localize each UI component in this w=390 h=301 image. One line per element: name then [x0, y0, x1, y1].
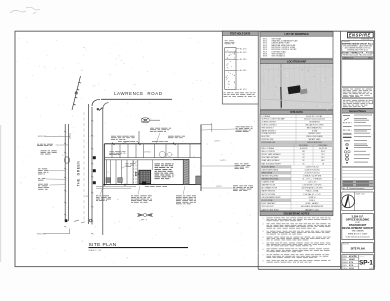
test hole log column — [225, 48, 236, 90]
svg-text:SCWA: SCWA — [312, 129, 318, 132]
north arrow box — [342, 192, 374, 211]
svg-text:SITE PLAN: SITE PLAN — [89, 242, 117, 248]
south label 3 — [176, 196, 196, 205]
svg-text:LOADING ZONE: LOADING ZONE — [262, 181, 276, 184]
intersection curb return curve — [92, 99, 100, 106]
svg-text:PROPOSED USE: PROPOSED USE — [262, 142, 276, 144]
svg-text:REV: 0: REV: 0 — [368, 57, 372, 59]
svg-text:1,200 GAL S.T. + 2 L.P.: 1,200 GAL S.T. + 2 L.P. — [303, 193, 321, 196]
drive aisle east edge — [173, 158, 183, 160]
bearing north — [118, 140, 138, 143]
svg-text:JANUARY 6, 2021: JANUARY 6, 2021 — [305, 208, 319, 211]
east label 2 — [235, 164, 251, 170]
west label curb — [37, 144, 53, 146]
svg-text:ENGINEERING NOTES: ENGINEERING NOTES — [284, 213, 310, 216]
svg-text:MAX. BUILDING HEIGHT: MAX. BUILDING HEIGHT — [262, 162, 281, 165]
hydrant dot at driveway — [97, 108, 99, 110]
svg-text:WILLIAM FLOYD UFSD: WILLIAM FLOYD UFSD — [305, 124, 324, 127]
svg-text:40,095 S.F. / 0.92 AC.: 40,095 S.F. / 0.92 AC. — [306, 115, 323, 118]
svg-text:300 GPD/ACRE = 276 GPD: 300 GPD/ACRE = 276 GPD — [302, 187, 324, 190]
svg-text:ZONING DISTRICT: ZONING DISTRICT — [262, 122, 277, 124]
east curb tick marks — [91, 120, 93, 234]
south label 2 — [131, 196, 152, 203]
driveway edge line — [138, 131, 140, 144]
svg-text:SP-9: SP-9 — [263, 56, 267, 58]
svg-text:FIRE DISTRICT: FIRE DISTRICT — [262, 127, 274, 129]
label above boundary 2 — [150, 128, 171, 132]
svg-text:PSEG LONG ISLAND: PSEG LONG ISLAND — [306, 135, 323, 138]
svg-text:ALLOWABLE FLOW: ALLOWABLE FLOW — [262, 187, 278, 190]
legend box — [342, 113, 374, 167]
svg-text:ENSPIRE: ENSPIRE — [349, 33, 371, 38]
svg-text:EL. 45.5': EL. 45.5' — [240, 52, 247, 54]
corner dots — [103, 184, 105, 186]
svg-text:LOT 5: LOT 5 — [217, 186, 222, 188]
parcel north boundary — [104, 143, 201, 145]
svg-text:LOT 5: LOT 5 — [215, 141, 220, 143]
the green west road edge (double line) — [64, 124, 66, 221]
svg-text:SUFFOLK COUNTY TAX MAP: SUFFOLK COUNTY TAX MAP — [262, 118, 286, 121]
revision cloud on west curb — [64, 157, 69, 163]
svg-text:DATE OF TEST HOLE: DATE OF TEST HOLE — [262, 208, 280, 211]
svg-text:PARKING REQUIRED: PARKING REQUIRED — [262, 175, 280, 178]
septic circle — [159, 151, 165, 157]
svg-text:J BUSINESS 2: J BUSINESS 2 — [309, 122, 320, 124]
the green east road edges — [88, 104, 90, 224]
svg-text:LOT 5: LOT 5 — [221, 160, 226, 162]
general notes bar — [342, 109, 374, 113]
svg-text:EL. 40.5': EL. 40.5' — [240, 70, 247, 72]
svg-text:PAVED AREA: PAVED AREA — [262, 171, 273, 174]
west label 3 — [38, 178, 45, 180]
bearing south — [145, 185, 167, 188]
project title box — [342, 214, 374, 240]
curb label nw — [110, 151, 126, 155]
west label 4 — [38, 184, 49, 190]
interior drive edge — [137, 160, 139, 185]
column dividers — [257, 31, 259, 269]
title block bottom — [342, 255, 374, 270]
svg-text:WATER DISTRICT: WATER DISTRICT — [262, 129, 276, 132]
svg-text:PROVIDED: PROVIDED — [319, 145, 329, 147]
sheet title box — [342, 243, 374, 253]
list of drawings box — [260, 32, 333, 59]
dumpster pad hatched squares — [106, 178, 110, 183]
fence lines below south boundary — [96, 186, 136, 188]
pencil smudge — [10, 7, 40, 14]
svg-text:OFFICE BUILDING: OFFICE BUILDING — [307, 142, 322, 144]
svg-text:NONE - VACANT: NONE - VACANT — [305, 202, 318, 205]
svg-text:EL. 37.0': EL. 37.0' — [240, 89, 247, 91]
svg-text:GROUNDWATER MGMT: GROUNDWATER MGMT — [262, 196, 281, 199]
se hatched pad — [196, 176, 201, 185]
svg-text:14,350 S.F. (35.8%): 14,350 S.F. (35.8%) — [305, 169, 320, 171]
site data rows middle — [260, 144, 333, 147]
svg-text:General Notes: General Notes — [349, 110, 367, 113]
svg-text:22,461 S.F. (56.0%): 22,461 S.F. (56.0%) — [305, 172, 320, 174]
svg-text:POSTAL DISTRICT: POSTAL DISTRICT — [262, 132, 277, 135]
curb label w — [126, 163, 136, 167]
test hole heading text — [225, 41, 235, 45]
legend rows — [343, 115, 372, 164]
svg-text:BUILDING AREA: BUILDING AREA — [262, 165, 276, 168]
site data rows lower — [260, 165, 291, 168]
west curb tick marks — [64, 131, 66, 227]
svg-text:SITE DETAILS 2: SITE DETAILS 2 — [272, 55, 286, 58]
svg-text:TEST HOLE DATA: TEST HOLE DATA — [230, 32, 251, 35]
svg-text:MIN. LOT AREA: MIN. LOT AREA — [262, 147, 275, 150]
parking aisle line (north stalls) — [104, 157, 201, 159]
svg-text:SCTM# 0200-527.00-02.00-045.00: SCTM# 0200-527.00-02.00-045.002 — [346, 237, 370, 239]
svg-text:REQUIRED: REQUIRED — [299, 145, 309, 147]
east lot line dimension stub — [201, 124, 212, 126]
parcel east boundary (extends beyond) — [200, 125, 202, 192]
svg-text:FLOOD ZONE: FLOOD ZONE — [262, 200, 274, 202]
svg-text:BROOKHAVEN F.D.: BROOKHAVEN F.D. — [307, 126, 323, 129]
east label 3 — [233, 186, 253, 192]
svg-text:PARKING PROVIDED: PARKING PROVIDED — [262, 178, 280, 181]
enspire logo box — [348, 32, 374, 38]
svg-text:SCALE: 1" = 20': SCALE: 1" = 20' — [89, 249, 103, 252]
svg-text:40,000 SF: 40,000 SF — [300, 148, 308, 150]
svg-text:LOCATION MAP: LOCATION MAP — [287, 61, 306, 64]
svg-text:SANITARY FLOW: SANITARY FLOW — [262, 184, 276, 187]
map roads — [263, 64, 326, 100]
sheet border frame — [15, 31, 375, 266]
svg-text:LIST OF DRAWINGS: LIST OF DRAWINGS — [284, 33, 308, 36]
svg-text:SIDE YARD SETBACK: SIDE YARD SETBACK — [262, 156, 280, 159]
svg-text:CHK'D:: CHK'D: — [343, 265, 348, 267]
driveway apron curve — [103, 103, 109, 109]
label above boundary 3 — [168, 136, 185, 138]
svg-text:ENSPIRE DESIGN GROUP, PLLC: ENSPIRE DESIGN GROUP, PLLC — [342, 43, 374, 45]
utility pole and overhead wire — [72, 76, 81, 110]
svg-text:SCHOOL DISTRICT: SCHOOL DISTRICT — [262, 125, 277, 127]
location map — [260, 59, 333, 63]
lawrence road south edge — [101, 98, 172, 100]
svg-text:PUBLIC - SCWA: PUBLIC - SCWA — [306, 190, 319, 193]
test hole data box — [222, 31, 258, 104]
svg-text:SHIRLEY, N.Y. 11967: SHIRLEY, N.Y. 11967 — [348, 233, 369, 235]
svg-text:EXIST. SANITARY: EXIST. SANITARY — [262, 202, 277, 205]
scan speckle — [17, 32, 373, 262]
svg-text:ZONE X: ZONE X — [309, 200, 316, 202]
building annotation text — [155, 164, 174, 180]
map site parcel (black) — [288, 85, 302, 94]
boundary tick marks north — [112, 143, 175, 145]
svg-text:THE GREEN: THE GREEN — [352, 231, 365, 233]
svg-text:LANDSCAPED AREA: LANDSCAPED AREA — [262, 168, 279, 171]
north parking stall dividers — [112, 144, 190, 158]
west parking area top line — [104, 159, 183, 161]
svg-text:W/L: W/L — [86, 196, 89, 198]
svg-text:1 of 9: 1 of 9 — [369, 268, 373, 270]
svg-text:TEST HOLE BY: TEST HOLE BY — [262, 206, 275, 208]
svg-text:40,095 SF: 40,095 SF — [319, 148, 327, 150]
svg-text:SHIRLEY 11967: SHIRLEY 11967 — [308, 133, 320, 135]
svg-text:EXISTING USE: EXISTING USE — [262, 139, 275, 141]
svg-text:MICHAEL T. HERRALA, P.E. — Pre: MICHAEL T. HERRALA, P.E. — President — [341, 52, 374, 55]
svg-text:WATER SERVICE: WATER SERVICE — [262, 190, 277, 193]
svg-text:0.06 GPD/SF = 197 GPD: 0.06 GPD/SF = 197 GPD — [303, 185, 323, 187]
svg-text:LOT 10: LOT 10 — [144, 152, 150, 154]
svg-text:ZONE VI: ZONE VI — [309, 197, 316, 199]
svg-text:SP-1: SP-1 — [359, 259, 373, 266]
stall dim — [109, 153, 121, 156]
label existing pavement — [111, 136, 135, 140]
signature / seal box — [342, 60, 374, 87]
west label 2 — [38, 169, 49, 175]
proposed building footprint — [139, 170, 151, 183]
road centerline dashed — [83, 112, 85, 222]
parcel south boundary — [104, 184, 201, 186]
svg-text:3,284 S.F. (8.2%): 3,284 S.F. (8.2%) — [305, 166, 318, 168]
disclaimer paragraph box 1 — [342, 87, 374, 97]
building west diamond (canopy) — [135, 172, 139, 176]
svg-text:REAR YARD SETBACK: REAR YARD SETBACK — [262, 159, 281, 162]
svg-text:EL. 43.0': EL. 43.0' — [240, 59, 247, 61]
svg-text:THE GREEN: THE GREEN — [76, 161, 80, 187]
svg-text:JOB No:: JOB No: — [343, 268, 349, 270]
curb line at parcel frontage — [102, 108, 104, 235]
svg-text:EXIST. W/L: EXIST. W/L — [38, 136, 46, 138]
svg-text:OFFICE BUILDING: OFFICE BUILDING — [346, 218, 370, 222]
svg-text:McDONALD GEOSERVICES: McDONALD GEOSERVICES — [301, 205, 324, 208]
svg-text:VACANT LAND: VACANT LAND — [309, 138, 321, 141]
disclaimer paragraph box 2 — [342, 99, 374, 108]
revision table — [342, 167, 374, 189]
svg-text:SITE DATA: SITE DATA — [290, 111, 303, 114]
parking stripe dashes near building — [133, 161, 135, 184]
svg-text:EL. 47.0': EL. 47.0' — [240, 48, 247, 50]
svg-text:SITE PLAN: SITE PLAN — [351, 246, 365, 250]
svg-text:LOT AREA: LOT AREA — [262, 115, 271, 118]
east label 1 — [236, 127, 253, 133]
benchmark winged symbol — [137, 213, 152, 216]
south label 1 — [96, 196, 111, 202]
benchmark label — [141, 219, 147, 222]
svg-text:FRONT YARD SETBACK: FRONT YARD SETBACK — [262, 153, 282, 156]
building entry stoop — [142, 182, 146, 185]
compass — [342, 195, 355, 208]
tree/utility symbol — [141, 118, 160, 123]
road end marks — [65, 219, 68, 222]
svg-text:LAWRENCE ROAD: LAWRENCE ROAD — [114, 91, 163, 96]
site data table — [260, 110, 333, 114]
svg-text:1 SPACE / 100 SF GFA: 1 SPACE / 100 SF GFA — [303, 175, 322, 178]
test hole notes — [224, 93, 256, 97]
west parking stall dividers — [107, 160, 134, 185]
svg-text:DEVELOPMENT GROUP: DEVELOPMENT GROUP — [342, 226, 373, 230]
catch basin squares on road — [93, 156, 96, 159]
firm info box — [342, 40, 374, 59]
engineering notes bar — [260, 211, 333, 215]
west label top — [41, 151, 57, 155]
bearing north 2 — [152, 140, 168, 143]
svg-text:M.T.H.: M.T.H. — [349, 262, 354, 264]
svg-text:M.T.H.: M.T.H. — [349, 265, 354, 267]
svg-text:ELECTRIC: ELECTRIC — [262, 136, 271, 138]
svg-text:0200-527.00-02.00-045.002: 0200-527.00-02.00-045.002 — [304, 119, 325, 121]
parcel west boundary — [103, 144, 105, 185]
map texture — [261, 65, 333, 110]
svg-text:16 + 1 H.C. = 17 SPACES: 16 + 1 H.C. = 17 SPACES — [302, 178, 322, 181]
landscape strip hatched — [183, 159, 189, 184]
